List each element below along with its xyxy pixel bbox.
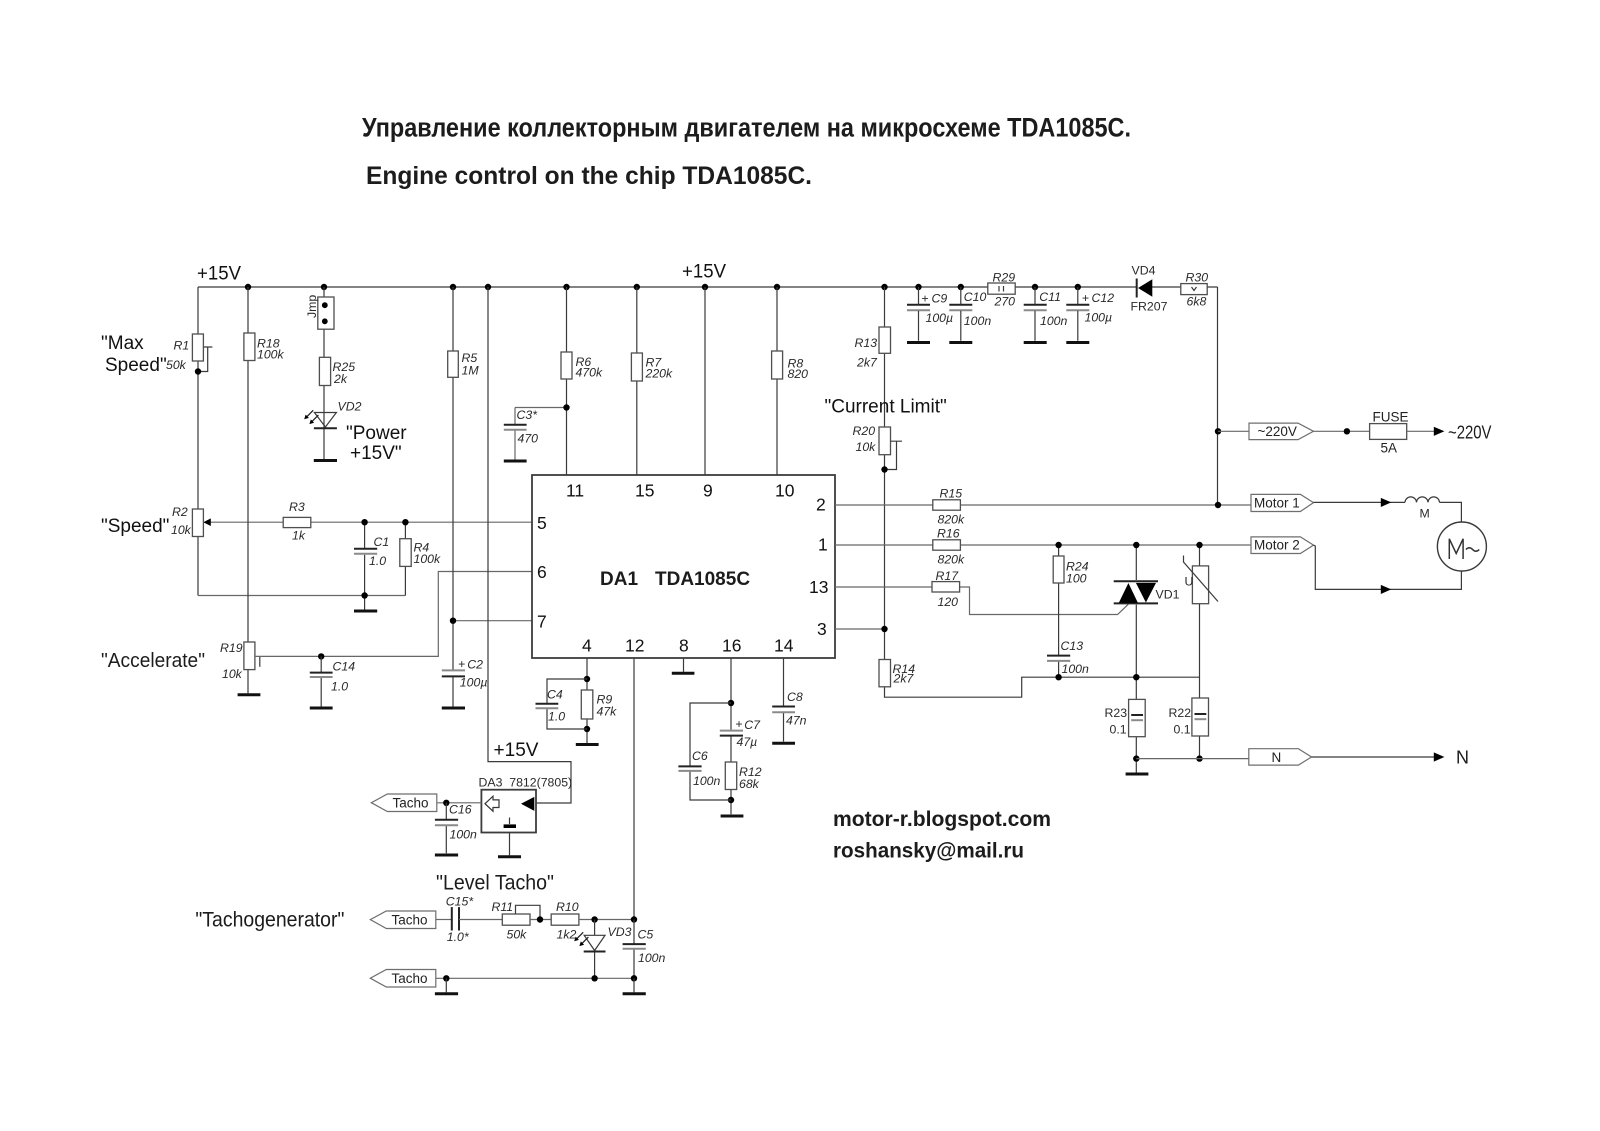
wire N bus	[1136, 758, 1249, 760]
svg-text:270: 270	[994, 295, 1016, 309]
svg-text:TDA1085C: TDA1085C	[655, 569, 750, 590]
arrow on Motor 2 wire	[1381, 585, 1391, 594]
resistor R5	[448, 351, 459, 377]
LED VD2	[304, 410, 337, 428]
svg-text:+: +	[921, 292, 928, 306]
wire pin 1 line	[835, 544, 1251, 546]
svg-text:0.1: 0.1	[1110, 723, 1127, 737]
capacitor C4	[536, 704, 559, 708]
capacitor C16	[435, 820, 458, 826]
svg-text:VD3: VD3	[608, 925, 632, 939]
flag Tacho (signal in)	[370, 911, 436, 929]
svg-text:C10: C10	[964, 290, 987, 304]
wire fuse to ~220V arrow	[1407, 430, 1436, 432]
resistor R15	[933, 500, 961, 510]
wire R6 column	[566, 287, 568, 475]
wire R13/R20/R14 column	[885, 287, 1200, 697]
svg-text:Jmp: Jmp	[305, 295, 319, 318]
flag Tacho (return)	[370, 970, 436, 988]
wire flag to fuse	[1314, 430, 1370, 432]
wire tacho return bus	[436, 977, 634, 979]
wire coil to motor	[1440, 502, 1462, 522]
svg-text:100n: 100n	[450, 828, 478, 842]
node R1 wiper junction	[195, 368, 201, 374]
svg-text:100n: 100n	[693, 774, 721, 788]
resistor R22	[1192, 698, 1209, 736]
potentiometer R20	[879, 427, 891, 455]
resistor R4	[400, 539, 411, 567]
wire pin 16 column	[730, 658, 732, 814]
svg-text:100µ: 100µ	[460, 676, 488, 690]
node pin4/C4/R9 top junction	[584, 676, 590, 682]
resistor R25	[319, 357, 330, 385]
varistor RU1	[1184, 556, 1219, 604]
motor M~	[1437, 522, 1486, 571]
svg-text:120: 120	[938, 595, 959, 609]
svg-text:6k8: 6k8	[1187, 295, 1207, 309]
resistor R13	[879, 327, 891, 353]
svg-text:C8: C8	[787, 690, 803, 704]
svg-text:9: 9	[703, 481, 713, 501]
resistor R10	[551, 914, 579, 925]
jumper Jmp	[318, 297, 334, 329]
svg-text:C1: C1	[374, 535, 390, 549]
ground under VD2	[314, 459, 337, 462]
ground under C16	[435, 854, 458, 857]
wire pin 2 line	[835, 504, 1251, 506]
wire varistor column	[1199, 545, 1201, 759]
svg-text:14: 14	[774, 636, 794, 656]
svg-text:2k7: 2k7	[893, 672, 915, 686]
svg-text:50k: 50k	[507, 928, 528, 942]
svg-text:Speed": Speed"	[105, 355, 167, 376]
svg-text:Tacho: Tacho	[392, 971, 428, 986]
svg-text:10: 10	[775, 481, 795, 501]
triac VD1	[1114, 581, 1158, 603]
svg-text:16: 16	[722, 636, 741, 656]
svg-text:FR207: FR207	[1131, 300, 1168, 314]
node C13 bottom junction	[1055, 674, 1061, 680]
svg-text:C2: C2	[467, 658, 483, 672]
svg-text:R13: R13	[855, 336, 878, 350]
node C16 junction	[443, 800, 449, 806]
wire R11 to R10	[530, 919, 551, 921]
node R23 bottom junction	[1133, 755, 1139, 761]
wire C6 bracket	[690, 703, 731, 800]
svg-text:"Level Tacho": "Level Tacho"	[436, 872, 554, 895]
node ~220V tap junction	[1215, 428, 1221, 434]
svg-text:C5: C5	[638, 928, 654, 942]
wire R1 column	[197, 287, 199, 596]
svg-text:R10: R10	[556, 900, 579, 914]
wire C1 stems	[364, 522, 366, 610]
svg-text:roshansky@mail.ru: roshansky@mail.ru	[833, 839, 1024, 863]
svg-text:C7: C7	[744, 718, 761, 732]
node Motor1 drop junction	[1215, 502, 1221, 508]
wire ~220V tap	[1218, 430, 1249, 432]
svg-text:~220V: ~220V	[1448, 423, 1492, 443]
LED VD3	[574, 932, 605, 951]
wire pin 8 stub	[683, 658, 685, 672]
svg-text:5A: 5A	[1381, 441, 1398, 456]
svg-text:1.0: 1.0	[369, 554, 386, 568]
wire C14 stems	[320, 656, 322, 707]
wire pin 12 column	[633, 658, 635, 920]
svg-text:"Max: "Max	[101, 333, 144, 354]
svg-text:1: 1	[818, 535, 828, 555]
svg-text:"Current Limit": "Current Limit"	[825, 397, 947, 418]
node C14 top junction	[318, 653, 324, 659]
svg-text:100: 100	[1066, 572, 1087, 586]
svg-text:3: 3	[817, 619, 827, 639]
wire R10 to pin 12 column	[579, 919, 634, 921]
node R22 bottom junction	[1196, 755, 1202, 761]
node C1 top junction	[361, 519, 367, 525]
svg-text:1M: 1M	[462, 364, 480, 378]
svg-text:N: N	[1456, 748, 1469, 768]
svg-text:FUSE: FUSE	[1373, 410, 1409, 425]
svg-text:8: 8	[679, 636, 689, 656]
wire pin 5 line (R2 wiper to IC pin 5)	[210, 521, 533, 523]
svg-text:R2: R2	[172, 505, 188, 519]
resistor R24	[1053, 556, 1064, 583]
svg-text:R17: R17	[936, 569, 960, 583]
node C4/R9 bottom junction	[584, 726, 590, 732]
ground under C9	[907, 341, 930, 344]
node VD3 top junction	[591, 916, 597, 922]
svg-text:Motor 1: Motor 1	[1254, 496, 1300, 511]
capacitor C11	[1024, 287, 1047, 341]
resistor R9	[581, 690, 593, 719]
svg-text:820: 820	[788, 367, 809, 381]
capacitor C2	[442, 670, 465, 676]
svg-text:N: N	[1272, 750, 1282, 765]
svg-text:Motor 2: Motor 2	[1254, 538, 1300, 553]
wire Motor 2 loop to motor bottom	[1314, 545, 1462, 589]
svg-text:R19: R19	[220, 641, 243, 655]
wire R8 column	[776, 287, 778, 475]
svg-text:Tacho: Tacho	[393, 796, 429, 811]
wire R5/C2 column	[452, 287, 454, 707]
svg-text:6: 6	[537, 562, 547, 582]
svg-text:R11: R11	[492, 900, 514, 914]
svg-text:10k: 10k	[222, 667, 243, 681]
svg-text:R16: R16	[937, 527, 960, 541]
wire R18/R19 column	[247, 287, 249, 693]
resistor R8	[772, 351, 783, 379]
svg-text:R15: R15	[940, 487, 963, 501]
wire C16 stems	[445, 803, 447, 854]
svg-text:12: 12	[625, 636, 644, 656]
resistor R16	[933, 540, 961, 550]
svg-text:Управление коллекторным двигат: Управление коллекторным двигателем на ми…	[362, 113, 1131, 143]
svg-text:1.0: 1.0	[548, 710, 565, 724]
svg-text:11: 11	[566, 481, 584, 501]
ground under C14	[310, 707, 333, 710]
ground under C11	[1024, 341, 1047, 344]
ground under C5	[623, 992, 646, 995]
node C1 bottom junction	[361, 592, 367, 598]
svg-text:C16: C16	[449, 803, 472, 817]
svg-text:+15V: +15V	[682, 262, 726, 283]
ground under R19	[238, 693, 261, 696]
svg-text:1k2: 1k2	[557, 928, 577, 942]
svg-text:820k: 820k	[938, 513, 966, 527]
svg-text:5: 5	[537, 513, 547, 533]
svg-text:R1: R1	[174, 339, 190, 353]
node C5 bottom junction	[631, 975, 637, 981]
flag Tacho (to DA3)	[371, 794, 437, 812]
svg-text:M: M	[1420, 507, 1430, 521]
node tacho return ground junction	[443, 975, 449, 981]
wire R7 column	[636, 287, 638, 475]
svg-text:470k: 470k	[576, 366, 604, 380]
wire right drop to ~220V / Motor 1	[1217, 287, 1219, 505]
svg-text:100n: 100n	[1040, 314, 1068, 328]
node R20 wiper junction	[881, 466, 887, 472]
svg-text:2k7: 2k7	[856, 356, 878, 370]
wire pin 13 line via R17 to triac gate	[835, 587, 1128, 615]
wire C3 tap	[515, 408, 567, 460]
resistor R14	[879, 660, 891, 687]
svg-text:DA3 7812(7805): DA3 7812(7805)	[479, 776, 573, 790]
svg-text:U: U	[1185, 575, 1194, 589]
fuse FUSE 5A	[1370, 424, 1407, 440]
svg-text:R30: R30	[1186, 271, 1209, 285]
wire bottom of R1/R2 branch to R4/C1	[198, 595, 405, 597]
ground under C3	[504, 460, 527, 463]
svg-text:Engine control on the chip TDA: Engine control on the chip TDA1085C.	[366, 162, 812, 190]
node R24 top junction	[1055, 542, 1061, 548]
IC DA1 TDA1085C	[532, 475, 835, 658]
svg-text:C13: C13	[1061, 639, 1084, 653]
diode VD4	[1137, 279, 1153, 298]
svg-text:100µ: 100µ	[1085, 311, 1113, 325]
resistor R7	[631, 353, 642, 381]
flag Motor 2	[1251, 537, 1314, 554]
ground under DA3	[498, 855, 521, 858]
flag N	[1249, 749, 1312, 765]
resistor R3	[283, 517, 311, 527]
capacitor C14	[310, 673, 333, 677]
node +15V rail junctions	[245, 284, 1081, 290]
potentiometer R2	[192, 509, 203, 537]
resistor R30	[1181, 284, 1207, 295]
node VD3 bottom junction	[591, 975, 597, 981]
svg-text:47µ: 47µ	[737, 735, 758, 749]
svg-text:VD2: VD2	[338, 400, 362, 414]
svg-text:0.1: 0.1	[1174, 723, 1191, 737]
wire C5 stems	[633, 920, 635, 979]
wire R24/C13 column	[1058, 545, 1060, 677]
resistor R17	[932, 582, 960, 592]
wire triac column	[1135, 545, 1137, 773]
svg-text:47k: 47k	[597, 705, 618, 719]
svg-text:+15V: +15V	[197, 264, 241, 285]
wire pin 14 column	[783, 658, 785, 742]
svg-text:10k: 10k	[171, 523, 192, 537]
svg-text:R29: R29	[993, 271, 1016, 285]
wire R4 stems	[404, 522, 406, 595]
svg-text:820k: 820k	[938, 553, 966, 567]
svg-text:VD1: VD1	[1156, 588, 1180, 602]
wire pin 6 line (IC pin 6 to R19 wiper)	[255, 572, 532, 657]
capacitor C8	[772, 707, 795, 713]
svg-text:motor-r.blogspot.com: motor-r.blogspot.com	[833, 807, 1051, 831]
ground under R12	[721, 815, 744, 818]
node pin16/C6 top junction	[728, 700, 734, 706]
capacitor C1	[354, 549, 377, 554]
node pin 3 junction	[881, 626, 887, 632]
node C5 top junction	[631, 916, 637, 922]
node C3 junction on R6 column	[563, 404, 569, 410]
wire jumper / R25 / VD2 column	[323, 287, 325, 459]
svg-text:100n: 100n	[964, 314, 992, 328]
svg-text:+15V": +15V"	[350, 443, 402, 464]
svg-text:470: 470	[518, 432, 539, 446]
svg-text:C12: C12	[1092, 291, 1115, 305]
svg-text:100n: 100n	[638, 951, 666, 965]
node triac top junction	[1133, 542, 1139, 548]
capacitor C7	[720, 731, 743, 736]
potentiometer R1	[192, 334, 203, 361]
wire pin 7 line	[453, 620, 532, 622]
flag ~220V	[1249, 423, 1314, 440]
svg-text:R23: R23	[1105, 706, 1128, 720]
svg-text:VD4: VD4	[1132, 264, 1156, 278]
ground under C2	[442, 707, 465, 710]
ground under C10	[949, 341, 972, 344]
flag Motor 1	[1251, 494, 1314, 511]
node pin7/C2 junction	[450, 618, 456, 624]
svg-text:100n: 100n	[1062, 662, 1090, 676]
svg-text:C9: C9	[932, 292, 948, 306]
svg-text:100k: 100k	[414, 552, 442, 566]
node C6/R12 bottom junction	[728, 797, 734, 803]
svg-text:100k: 100k	[257, 348, 285, 362]
svg-text:68k: 68k	[739, 777, 760, 791]
svg-text:"Tachogenerator": "Tachogenerator"	[195, 909, 344, 932]
svg-text:"Accelerate": "Accelerate"	[101, 650, 205, 672]
capacitor C9	[907, 287, 930, 341]
inductor M (motor field coil)	[1405, 497, 1440, 502]
wire Motor 1 to coil	[1314, 501, 1406, 503]
svg-text:+: +	[458, 657, 465, 671]
potentiometer R19	[244, 642, 255, 670]
svg-text:+: +	[735, 717, 742, 731]
wire R19 wiper tick	[259, 656, 261, 666]
wire R20 wiper	[885, 441, 903, 469]
svg-text:1k: 1k	[292, 529, 306, 543]
svg-text:10k: 10k	[856, 440, 877, 454]
regulator DA3 7812(7805)	[481, 790, 536, 833]
node R11/R10 junction	[537, 916, 543, 922]
svg-text:C4: C4	[547, 688, 563, 702]
svg-text:R22: R22	[1169, 706, 1192, 720]
wire C15 to R11	[459, 919, 502, 921]
capacitor C6	[678, 766, 701, 771]
wire C4 bracket	[547, 679, 587, 729]
capacitor C5	[623, 944, 646, 949]
ground under C12	[1066, 341, 1089, 344]
svg-text:C14: C14	[333, 660, 356, 674]
resistor R29	[988, 283, 1015, 294]
svg-text:1.0: 1.0	[331, 680, 348, 694]
svg-text:47n: 47n	[786, 714, 807, 728]
svg-text:+: +	[1082, 291, 1089, 305]
svg-text:C11: C11	[1039, 290, 1061, 304]
resistor R18	[244, 333, 255, 361]
ground under C8	[772, 742, 795, 745]
ground pin 8	[672, 672, 695, 675]
svg-text:1.0*: 1.0*	[447, 930, 470, 944]
svg-text:+15V: +15V	[494, 740, 539, 761]
wire ground stub (C5)	[633, 978, 635, 992]
wire R11 wiper	[516, 905, 541, 919]
svg-text:Tacho: Tacho	[392, 913, 428, 928]
arrow ~220V out	[1434, 427, 1445, 436]
node R4 top junction	[402, 519, 408, 525]
wire +15V rail	[198, 286, 1218, 288]
svg-text:13: 13	[809, 577, 828, 597]
ground under C1	[354, 610, 377, 613]
svg-text:"Power: "Power	[346, 423, 407, 444]
arrow on Motor 1 wire	[1381, 498, 1391, 507]
svg-text:R3: R3	[289, 500, 305, 514]
wire R1 wiper to bottom terminal	[198, 347, 212, 372]
wire +15V feed to DA3	[488, 287, 571, 803]
node triac bottom junction	[1133, 674, 1139, 680]
capacitor C10	[949, 287, 972, 341]
svg-text:4: 4	[582, 636, 592, 656]
svg-text:"Speed": "Speed"	[101, 516, 169, 537]
svg-text:R20: R20	[853, 424, 876, 438]
wire pin 3 line	[835, 628, 885, 630]
svg-text:7: 7	[537, 612, 547, 632]
wire DA3 ground stem	[509, 833, 511, 856]
node varistor top junction	[1196, 542, 1202, 548]
svg-text:15: 15	[635, 481, 654, 501]
wire pin 9 column	[704, 287, 706, 475]
resistor R6	[561, 352, 572, 379]
arrow N out	[1434, 752, 1445, 761]
wire N out	[1312, 756, 1437, 758]
wire pin 4 column	[586, 658, 588, 743]
ground under R9	[576, 743, 599, 746]
capacitor C3	[504, 425, 527, 430]
resistor R12	[725, 762, 736, 790]
arrow into R2 wiper	[203, 518, 211, 526]
svg-text:C6: C6	[692, 749, 708, 763]
svg-text:C15*: C15*	[446, 895, 475, 909]
svg-text:220k: 220k	[645, 367, 674, 381]
wire tacho to C15	[436, 919, 452, 921]
svg-text:50k: 50k	[166, 358, 187, 372]
svg-text:2k: 2k	[333, 372, 348, 386]
svg-text:~220V: ~220V	[1258, 424, 1297, 439]
svg-text:100µ: 100µ	[926, 311, 954, 325]
capacitor C15	[452, 907, 459, 930]
potentiometer R11	[502, 914, 530, 925]
svg-text:DA1: DA1	[600, 569, 638, 590]
resistor R23	[1129, 699, 1146, 736]
wire DA3 output to Tacho flag	[438, 802, 482, 804]
svg-text:C3*: C3*	[517, 408, 539, 422]
svg-text:2: 2	[816, 495, 826, 515]
node fuse wire junction	[1344, 428, 1350, 434]
wire ground stub (tacho return)	[445, 978, 447, 992]
capacitor C13	[1047, 656, 1070, 661]
